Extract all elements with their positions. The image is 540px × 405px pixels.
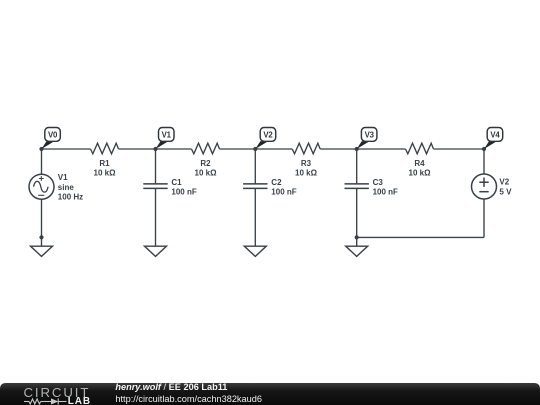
wire bottom return to C3 ground node bbox=[357, 236, 484, 238]
svg-text:10 kΩ: 10 kΩ bbox=[94, 169, 117, 178]
wire node V3 down to C3 bbox=[356, 149, 358, 184]
svg-text:sine: sine bbox=[58, 183, 75, 192]
svg-text:R3: R3 bbox=[301, 159, 312, 168]
junction node V0 bbox=[39, 147, 43, 151]
footer url bbox=[115, 394, 262, 404]
wire C2 to ground bbox=[254, 188, 256, 246]
wire C1 to ground bbox=[155, 188, 157, 246]
svg-text:V3: V3 bbox=[365, 131, 375, 140]
svg-text:V2: V2 bbox=[263, 131, 273, 140]
wire C3 to ground bbox=[356, 188, 358, 246]
voltage source V1 sine 100 Hz bbox=[29, 174, 54, 199]
svg-text:10 kΩ: 10 kΩ bbox=[195, 169, 218, 178]
node V0 flag bbox=[42, 128, 61, 150]
node V3 flag bbox=[357, 128, 377, 150]
svg-text:100 nF: 100 nF bbox=[171, 188, 196, 197]
wire node V2 down to C2 bbox=[254, 149, 256, 184]
wire V1 source to ground bbox=[41, 199, 43, 246]
footer logo resistor-diode doodle bbox=[24, 398, 67, 404]
svg-text:C3: C3 bbox=[373, 178, 384, 187]
svg-text:henry.wolf / EE 206 Lab11: henry.wolf / EE 206 Lab11 bbox=[115, 382, 227, 392]
label R4 10 kOhm bbox=[409, 159, 432, 178]
junction below V1 source bbox=[39, 235, 43, 239]
capacitor C2 bbox=[243, 184, 267, 189]
footer CircuitLab logo wordmark bbox=[24, 385, 92, 405]
svg-text:V4: V4 bbox=[490, 131, 500, 140]
svg-text:R2: R2 bbox=[200, 159, 211, 168]
wire R1 to R2 through node V1 bbox=[119, 148, 192, 150]
capacitor C1 bbox=[143, 184, 167, 189]
wire R2 to R3 through node V2 bbox=[220, 148, 293, 150]
svg-text:V0: V0 bbox=[48, 131, 58, 140]
svg-text:http://circuitlab.com/cachn382: http://circuitlab.com/cachn382kaud6 bbox=[115, 394, 262, 404]
resistor R1 bbox=[91, 143, 119, 154]
footer title henry.wolf / EE 206 Lab11 bbox=[115, 382, 227, 392]
svg-text:LAB: LAB bbox=[68, 396, 91, 405]
ground under C3 bbox=[346, 246, 368, 256]
junction below C3 bbox=[355, 235, 359, 239]
svg-text:10 kΩ: 10 kΩ bbox=[409, 169, 432, 178]
svg-text:5 V: 5 V bbox=[499, 188, 512, 197]
wire node V1 down to C1 bbox=[155, 149, 157, 184]
svg-text:100 Hz: 100 Hz bbox=[58, 192, 83, 201]
wire node V0 down to V1 source bbox=[41, 149, 43, 174]
label R1 10 kOhm bbox=[94, 159, 117, 178]
footer bar bbox=[0, 383, 540, 405]
svg-text:V2: V2 bbox=[499, 177, 509, 186]
junction node V2 bbox=[253, 147, 257, 151]
ground under V1 source bbox=[31, 246, 53, 256]
label R3 10 kOhm bbox=[295, 159, 318, 178]
junction node V1 bbox=[153, 147, 157, 151]
wire node V4 down to V2 source bbox=[483, 149, 485, 174]
svg-text:V1: V1 bbox=[58, 173, 68, 182]
svg-text:R1: R1 bbox=[99, 159, 110, 168]
label C1 100 nF bbox=[171, 178, 196, 197]
node V1 flag bbox=[156, 128, 175, 150]
resistor R4 bbox=[406, 143, 434, 154]
ground under C1 bbox=[145, 246, 167, 256]
wire R4 to node V4 bbox=[434, 148, 485, 150]
svg-text:10 kΩ: 10 kΩ bbox=[295, 169, 318, 178]
svg-text:R4: R4 bbox=[414, 159, 425, 168]
capacitor C3 bbox=[345, 184, 369, 189]
voltage source V2 5 V bbox=[472, 174, 497, 199]
wire V0 to R1 bbox=[42, 148, 91, 150]
node V4 flag bbox=[484, 128, 503, 150]
ground under C2 bbox=[244, 246, 266, 256]
junction node V4 bbox=[482, 147, 486, 151]
label V2 5 V bbox=[499, 177, 512, 196]
svg-text:100 nF: 100 nF bbox=[271, 188, 296, 197]
svg-text:C2: C2 bbox=[271, 178, 282, 187]
resistor R2 bbox=[192, 143, 220, 154]
label V1 sine 100 Hz bbox=[58, 173, 83, 201]
wire R3 to R4 through node V3 bbox=[320, 148, 405, 150]
svg-text:C1: C1 bbox=[171, 178, 182, 187]
resistor R3 bbox=[292, 143, 320, 154]
wire V2 source down bbox=[483, 199, 485, 237]
svg-text:V1: V1 bbox=[162, 131, 172, 140]
junction node V3 bbox=[355, 147, 359, 151]
svg-text:100 nF: 100 nF bbox=[373, 188, 398, 197]
label C2 100 nF bbox=[271, 178, 296, 197]
label C3 100 nF bbox=[373, 178, 398, 197]
node V2 flag bbox=[255, 128, 275, 150]
label R2 10 kOhm bbox=[195, 159, 218, 178]
